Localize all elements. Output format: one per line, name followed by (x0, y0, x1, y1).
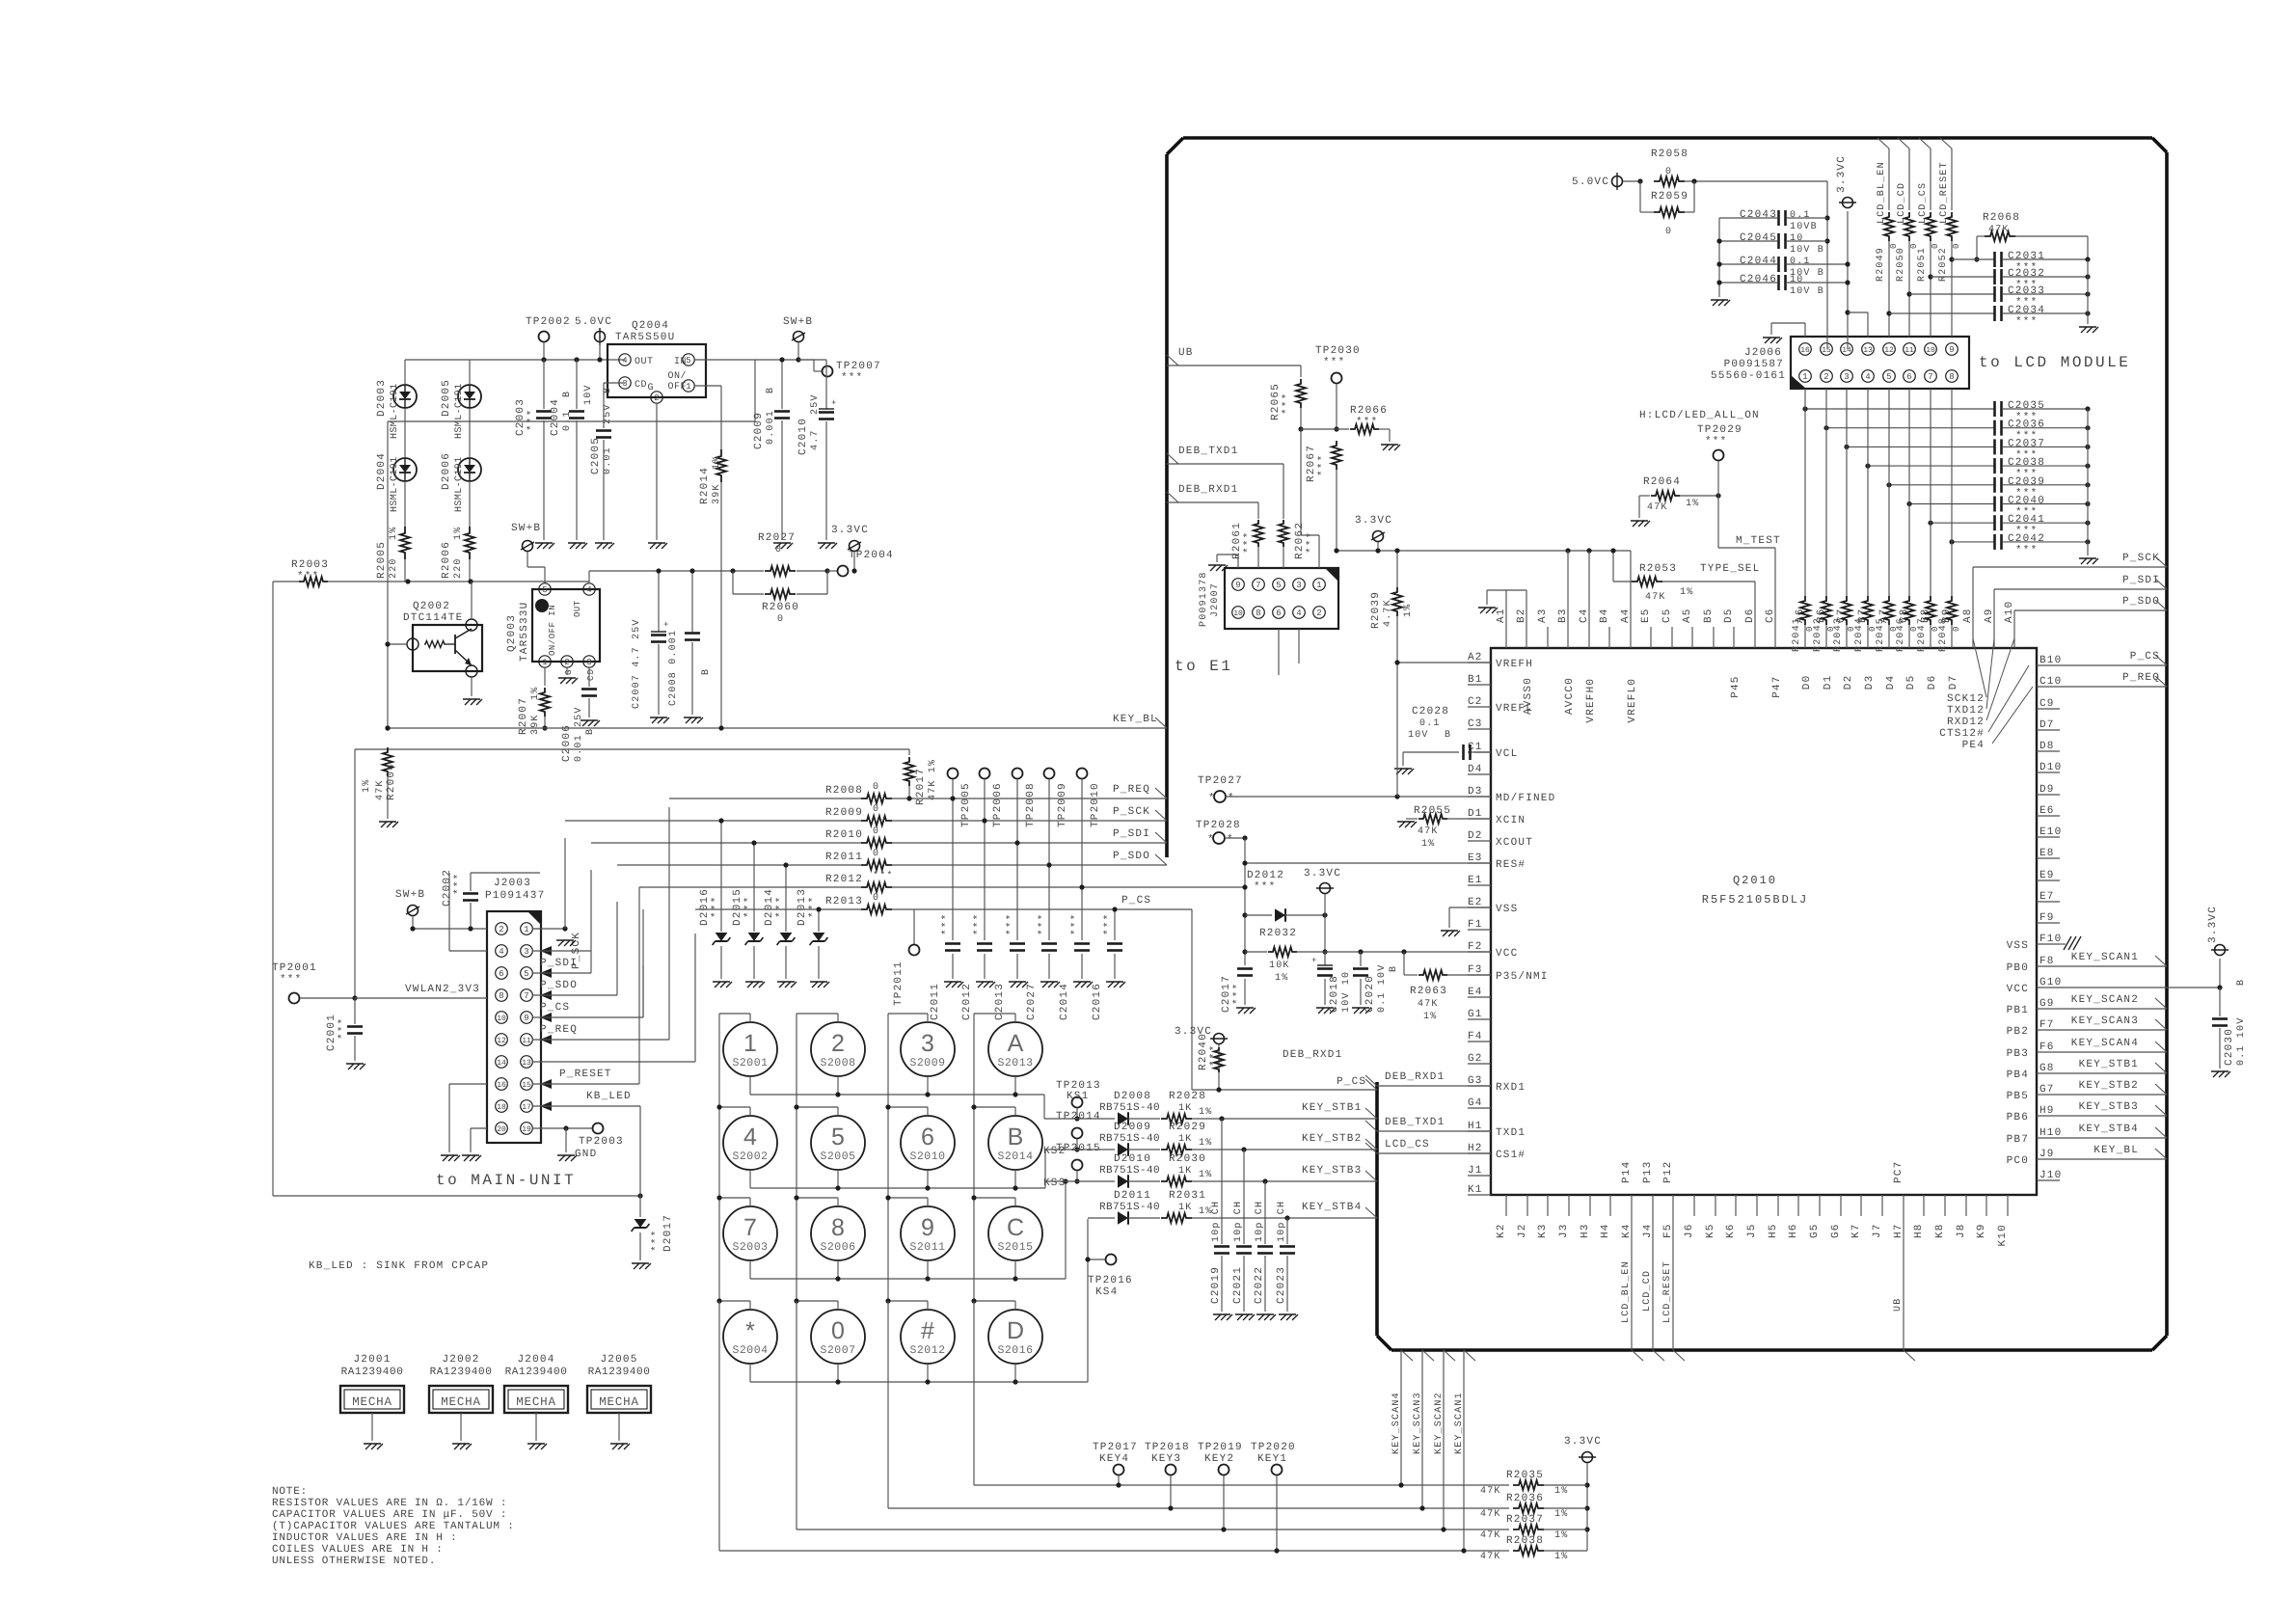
svg-text:10: 10 (497, 1015, 506, 1023)
capacitor C2041 *** (1931, 522, 1994, 524)
pin K9 bottom (1985, 1195, 1987, 1216)
svg-text:47K: 47K (1418, 826, 1439, 837)
ground Q2003 G (566, 667, 568, 675)
svg-text:47K: 47K (1480, 1509, 1501, 1520)
svg-text:10p CH: 10p CH (1211, 1201, 1222, 1242)
svg-text:R2031: R2031 (1169, 1190, 1206, 1202)
svg-text:5: 5 (686, 356, 690, 365)
svg-text:D2005: D2005 (441, 379, 452, 417)
pin J10 right (2037, 1179, 2060, 1181)
callout DEB_TXD1 to TXD1 (1365, 1121, 1377, 1131)
pin B2 top (1526, 627, 1527, 648)
wire keypad row 4 (750, 1381, 1088, 1383)
pin K7 bottom (1860, 1195, 1862, 1216)
svg-text:J1: J1 (1468, 1165, 1483, 1177)
wire pin9 riser to P_CS row (642, 909, 644, 1017)
wire J2007 pin6/pin4 down (1278, 629, 1280, 675)
svg-text:*: * (1208, 793, 1216, 804)
svg-text:D2006: D2006 (441, 452, 452, 490)
svg-text:C9: C9 (2039, 698, 2055, 710)
pin G3 left (1468, 1085, 1491, 1087)
junction dots LCD columns to bypass caps (1949, 257, 1954, 261)
pin H10 right (2037, 1137, 2060, 1139)
svg-text:0: 0 (1952, 625, 1961, 632)
pin A2 left (1468, 662, 1491, 663)
right callouts KEY_SCAN/KEY_STB/KEY_BL (2060, 965, 2167, 967)
svg-text:39K: 39K (712, 483, 722, 504)
svg-text:KEY_STB4: KEY_STB4 (1302, 1202, 1362, 1213)
svg-text:P14: P14 (1621, 1161, 1633, 1183)
svg-text:CD: CD (586, 668, 596, 681)
svg-text:A10: A10 (2004, 601, 2015, 623)
wire LCD_BL_EN from pin K4 (1631, 1216, 1633, 1350)
svg-text:1%: 1% (1554, 1486, 1568, 1497)
key switch S2002 (4) (723, 1116, 777, 1170)
svg-text:H:LCD/LED_ALL_ON: H:LCD/LED_ALL_ON (1639, 410, 1760, 421)
svg-text:MECHA: MECHA (599, 1395, 639, 1409)
pin H1 left (1468, 1130, 1491, 1132)
svg-text:10: 10 (1926, 346, 1935, 355)
svg-text:F2: F2 (1468, 941, 1483, 953)
ground slash at F10 VSS right (2060, 943, 2066, 945)
svg-text:MD/FINED: MD/FINED (1496, 793, 1555, 804)
svg-text:OFF: OFF (667, 382, 687, 392)
pin G7 right (2037, 1094, 2060, 1096)
svg-text:G9: G9 (2039, 998, 2055, 1010)
resistor R2052 0 (1947, 212, 1957, 241)
wire keypad column bus 3 (887, 1014, 889, 1301)
pin B4 top (1608, 627, 1610, 648)
svg-text:***: *** (775, 896, 787, 918)
svg-text:C2034: C2034 (2008, 305, 2045, 316)
svg-text:TP2006: TP2006 (992, 782, 1004, 827)
test point TP2013 KS1 (1072, 1097, 1083, 1108)
svg-text:***: *** (453, 873, 465, 895)
svg-text:0.01 25V: 0.01 25V (574, 706, 584, 762)
key switch S2012 (#) (901, 1310, 955, 1364)
svg-text:TP2027: TP2027 (1198, 775, 1243, 787)
svg-text:C2005: C2005 (590, 437, 602, 474)
svg-text:C10: C10 (2039, 676, 2062, 688)
svg-text:12: 12 (497, 1037, 506, 1045)
pin G6 bottom (1840, 1195, 1842, 1216)
resistor R2043 0 (1842, 596, 1851, 625)
svg-text:S2010: S2010 (909, 1150, 945, 1163)
svg-text:R2008: R2008 (825, 785, 863, 797)
key switch S2013 (A) (988, 1022, 1042, 1076)
pin B10 right (2037, 664, 2060, 666)
svg-text:DEB_RXD1: DEB_RXD1 (1178, 484, 1238, 496)
svg-text:J2007: J2007 (1210, 582, 1221, 617)
svg-text:TP2007: TP2007 (836, 361, 881, 372)
wire bottom bus row 2 (888, 1507, 1509, 1509)
svg-text:17: 17 (522, 1103, 531, 1112)
svg-text:LCD_CS: LCD_CS (1385, 1139, 1430, 1150)
svg-text:RB751S-40: RB751S-40 (1099, 1202, 1160, 1213)
svg-text:R2063: R2063 (1410, 986, 1447, 997)
svg-text:25V: 25V (810, 393, 821, 415)
pin E5 top (1650, 627, 1652, 648)
svg-text:RA1239400: RA1239400 (341, 1367, 404, 1378)
svg-text:1%: 1% (362, 779, 372, 793)
svg-text:PC0: PC0 (2007, 1155, 2029, 1167)
svg-text:R2011: R2011 (825, 852, 863, 863)
svg-text:C2018: C2018 (1329, 975, 1340, 1013)
svg-text:H10: H10 (2039, 1127, 2062, 1139)
svg-text:J9: J9 (2039, 1149, 2055, 1160)
svg-text:C2039: C2039 (2008, 476, 2045, 488)
resistor R2039 4.7K 1% (1392, 587, 1402, 616)
svg-text:11: 11 (522, 1037, 531, 1045)
svg-text:HSML-C191: HSML-C191 (454, 383, 465, 439)
wire left tall drop from R2003 to KB_LED note row (272, 582, 274, 1196)
svg-text:R2005: R2005 (376, 541, 388, 579)
resistor R2062 *** (1279, 520, 1288, 547)
svg-text:B5: B5 (1703, 608, 1715, 623)
pin A6 top (1804, 627, 1806, 648)
svg-text:B: B (766, 387, 776, 393)
pin G9 right (2037, 1008, 2060, 1010)
pin G4 left (1468, 1107, 1491, 1109)
svg-text:16: 16 (1800, 346, 1810, 355)
resistor R2017 47K 1% (908, 749, 910, 755)
pin E2 left (1468, 907, 1491, 908)
zener D2017 *** (639, 1106, 641, 1217)
resistor R2058 0 (1623, 180, 1640, 182)
wire P_SCK from pin1 (532, 928, 565, 930)
svg-text:TP2019: TP2019 (1198, 1442, 1243, 1453)
svg-text:LCD_RESET: LCD_RESET (1662, 1260, 1673, 1323)
pin E7 right (2037, 901, 2060, 903)
pin E3 left (1468, 862, 1491, 864)
svg-text:47K: 47K (1480, 1530, 1501, 1541)
svg-text:PE4: PE4 (1962, 740, 1985, 751)
svg-text:Q2010: Q2010 (1733, 874, 1777, 887)
svg-text:A2: A2 (1468, 652, 1483, 663)
pin D10 right (2037, 771, 2060, 773)
wire SW+B rail to caps (779, 357, 784, 362)
svg-text:TP2003: TP2003 (579, 1136, 624, 1148)
svg-text:C2031: C2031 (2008, 251, 2045, 262)
svg-text:6: 6 (499, 969, 503, 979)
svg-text:R2044: R2044 (1854, 617, 1865, 652)
svg-text:0.1: 0.1 (1790, 210, 1811, 221)
svg-text:4: 4 (586, 585, 591, 595)
pin B9 top (1951, 627, 1953, 648)
svg-text:R5F52105BDLJ: R5F52105BDLJ (1702, 893, 1808, 907)
svg-text:+: + (1311, 956, 1318, 965)
svg-text:2: 2 (654, 393, 659, 403)
svg-text:to E1: to E1 (1175, 658, 1233, 675)
key switch S2003 (7) (723, 1206, 777, 1260)
pin C6 top (1774, 627, 1776, 648)
svg-text:TYPE_SEL: TYPE_SEL (1700, 563, 1760, 575)
pin K3 bottom (1547, 1195, 1549, 1216)
svg-text:P_SDI: P_SDI (540, 958, 578, 969)
wire P_SDO from pin7 with arrow (540, 990, 552, 1000)
svg-text:6: 6 (1276, 609, 1281, 618)
capacitors C2019 C2021 C2022 C2023 10p CH (1221, 1119, 1223, 1244)
wire pin16 gnd (449, 1083, 487, 1085)
pin K2 bottom (1505, 1195, 1507, 1216)
svg-text:AVSS0: AVSS0 (1523, 677, 1534, 715)
wire LED column 1 (404, 360, 406, 385)
wire LCD_RESET from pin F5 (1672, 1216, 1674, 1350)
svg-text:***: *** (1282, 392, 1293, 415)
svg-text:R2043: R2043 (1833, 617, 1844, 652)
svg-text:B1: B1 (1468, 674, 1483, 686)
svg-text:KEY_SCAN1: KEY_SCAN1 (1454, 1392, 1465, 1454)
svg-text:P_SCK: P_SCK (2122, 553, 2160, 564)
svg-text:0: 0 (775, 545, 782, 555)
svg-text:C2023: C2023 (1276, 1266, 1287, 1304)
wire P_SDI from pin A9 (1993, 589, 1995, 627)
pin A4 top (1630, 627, 1632, 648)
svg-text:RXD1: RXD1 (1496, 1082, 1526, 1094)
svg-text:P12: P12 (1662, 1161, 1674, 1183)
svg-text:E1: E1 (1468, 875, 1483, 886)
svg-text:2: 2 (1316, 609, 1321, 618)
svg-text:C2013: C2013 (994, 983, 1006, 1020)
svg-text:KEY_STB2: KEY_STB2 (2079, 1080, 2139, 1092)
pin C10 right (2037, 686, 2060, 688)
svg-text:C2046: C2046 (1740, 274, 1777, 285)
test point TP2016 KS4 (1106, 1255, 1117, 1265)
svg-text:D2010: D2010 (1114, 1153, 1151, 1165)
LED D2003 HSML-C191 (393, 385, 417, 408)
svg-text:F5: F5 (1662, 1223, 1674, 1238)
ground for Q2004 G pin (656, 403, 658, 540)
svg-text:P_CS: P_CS (1337, 1076, 1366, 1088)
key switch S2008 (2) (811, 1022, 865, 1076)
svg-text:ON/: ON/ (667, 370, 687, 382)
pin D2 left (1468, 840, 1491, 842)
svg-text:5: 5 (831, 1123, 845, 1150)
svg-text:D2014: D2014 (764, 888, 775, 926)
svg-text:DTC114TE: DTC114TE (403, 612, 463, 624)
svg-text:UB: UB (1178, 347, 1194, 359)
svg-text:***: *** (941, 913, 953, 935)
svg-text:R2013: R2013 (825, 896, 863, 907)
svg-text:Q2003: Q2003 (506, 614, 518, 652)
svg-text:KEY_STB1: KEY_STB1 (2079, 1059, 2139, 1070)
svg-text:***: *** (1705, 436, 1727, 447)
capacitor C2036 *** (1826, 427, 1994, 429)
capacitor C2012 *** (977, 942, 992, 945)
svg-text:RB751S-40: RB751S-40 (1099, 1102, 1160, 1114)
svg-text:TP2015: TP2015 (1056, 1143, 1101, 1154)
key switch S2004 (*) (723, 1310, 777, 1364)
svg-text:TP2030: TP2030 (1315, 345, 1361, 357)
svg-text:RA1239400: RA1239400 (505, 1367, 568, 1378)
svg-text:TP2002: TP2002 (526, 316, 571, 328)
svg-text:P47: P47 (1771, 675, 1783, 697)
svg-text:D1: D1 (1823, 675, 1834, 690)
svg-text:15: 15 (1822, 346, 1831, 355)
svg-text:K9: K9 (1976, 1223, 1987, 1238)
svg-text:D10: D10 (2039, 762, 2062, 773)
svg-text:D2012: D2012 (1247, 870, 1284, 881)
svg-text:R2010: R2010 (825, 829, 863, 841)
wire J2003 pin2 to SW+B / C2002 (413, 928, 487, 930)
svg-text:47K: 47K (1418, 999, 1439, 1010)
pin D8 right (2037, 750, 2060, 752)
pin D9 right (2037, 794, 2060, 796)
svg-text:3.3VC: 3.3VC (831, 525, 869, 536)
svg-text:9: 9 (1949, 345, 1954, 355)
svg-text:K7: K7 (1850, 1223, 1862, 1238)
svg-text:R2027: R2027 (758, 532, 796, 544)
svg-text:UNLESS OTHERWISE NOTED.: UNLESS OTHERWISE NOTED. (272, 1556, 436, 1567)
svg-text:1: 1 (686, 382, 690, 392)
svg-text:H4: H4 (1600, 1223, 1611, 1238)
svg-text:S2009: S2009 (909, 1057, 945, 1069)
svg-text:TP2029: TP2029 (1697, 424, 1742, 436)
resistor R2014 39K 1% (694, 385, 721, 387)
svg-text:B4: B4 (1599, 608, 1610, 623)
svg-text:K10: K10 (1997, 1224, 2009, 1246)
svg-text:220: 220 (389, 557, 399, 579)
pin K5 bottom (1715, 1195, 1716, 1216)
callout LCD_CS to CS1# (1365, 1143, 1377, 1153)
svg-text:S2006: S2006 (820, 1241, 855, 1254)
svg-text:P0091378: P0091378 (1199, 571, 1209, 627)
svg-text:B: B (1008, 1123, 1024, 1150)
svg-text:P_REQ: P_REQ (540, 1024, 578, 1036)
svg-text:RA1239400: RA1239400 (430, 1367, 493, 1378)
svg-text:KB_LED: KB_LED (586, 1091, 632, 1102)
svg-text:***: *** (873, 870, 894, 881)
svg-text:J6: J6 (1684, 1223, 1695, 1238)
svg-text:1%: 1% (1686, 499, 1699, 509)
svg-text:2: 2 (1823, 372, 1828, 382)
svg-text:S2012: S2012 (909, 1344, 945, 1357)
svg-text:5: 5 (542, 585, 547, 595)
svg-text:47K: 47K (1645, 592, 1666, 603)
svg-text:TAR5S50U: TAR5S50U (615, 332, 675, 343)
svg-text:1: 1 (524, 925, 528, 934)
pin F10 right (2037, 943, 2060, 945)
capacitor C2035 *** (1805, 408, 1994, 410)
svg-text:S2013: S2013 (997, 1057, 1033, 1069)
svg-text:0: 0 (1665, 227, 1672, 237)
svg-text:D2004: D2004 (376, 452, 388, 490)
svg-text:P_SDO: P_SDO (1113, 851, 1150, 862)
svg-text:*: * (1207, 834, 1215, 846)
svg-text:C2010: C2010 (797, 418, 809, 455)
svg-text:D2016: D2016 (699, 888, 711, 926)
svg-text:10: 10 (1790, 275, 1803, 285)
svg-text:VWLAN2_3V3: VWLAN2_3V3 (405, 984, 480, 995)
svg-text:1%: 1% (453, 527, 464, 540)
pin A3 top (1547, 627, 1549, 648)
pin J3 bottom (1568, 1195, 1570, 1216)
svg-text:GND: GND (575, 1149, 597, 1160)
svg-text:C2003: C2003 (515, 398, 527, 436)
svg-text:TP2016: TP2016 (1088, 1275, 1133, 1286)
pin K10 bottom (2007, 1195, 2009, 1216)
svg-text:KEY_BL: KEY_BL (2093, 1145, 2139, 1156)
pin E6 right (2037, 815, 2060, 817)
svg-text:P_RESET: P_RESET (559, 1069, 612, 1080)
svg-text:1%: 1% (1421, 839, 1435, 850)
svg-text:B: B (585, 728, 596, 735)
svg-text:J2001: J2001 (353, 1354, 391, 1366)
svg-text:R2045: R2045 (1876, 617, 1886, 652)
svg-text:1%: 1% (1199, 1170, 1212, 1180)
svg-text:HSML-C191: HSML-C191 (390, 383, 400, 439)
wire KEY_BL net (388, 727, 1167, 729)
wire LCD_CD from pin J4 (1652, 1216, 1654, 1350)
wire IN pin to SW+B rail (694, 359, 798, 361)
svg-text:F1: F1 (1468, 919, 1483, 931)
ground at J2007 pin9 (1237, 555, 1239, 568)
svg-text:D6: D6 (1744, 608, 1756, 623)
svg-text:J2004: J2004 (517, 1354, 554, 1366)
svg-text:A5: A5 (1682, 608, 1693, 623)
border frame of LCD/keyboard sub-module block (1183, 136, 2152, 140)
pin E10 right (2037, 836, 2060, 838)
svg-text:KEY_SCAN3: KEY_SCAN3 (2071, 1015, 2139, 1027)
svg-text:F7: F7 (2039, 1019, 2055, 1031)
capacitor C2027 *** (1041, 942, 1057, 945)
pin F3 left (1468, 974, 1491, 976)
svg-text:OUT: OUT (573, 600, 582, 617)
test point TP2011 (913, 909, 915, 944)
test point TP2010 (1077, 769, 1088, 779)
svg-text:PB6: PB6 (2007, 1112, 2029, 1123)
resistor R2006 220 1% (465, 527, 474, 559)
wire pin13 net (532, 1061, 695, 1063)
svg-text:5.0VC: 5.0VC (575, 316, 612, 328)
pin D7 right (2037, 729, 2060, 731)
svg-text:PB1: PB1 (2007, 1005, 2029, 1016)
svg-text:D4: D4 (1885, 675, 1897, 690)
resistor R2064 47K 1% and M_TEST (1631, 520, 1648, 522)
svg-text:10V B: 10V B (1790, 245, 1824, 256)
resistor R2063 47K 1% (1401, 949, 1406, 954)
svg-text:10: 10 (1790, 233, 1803, 244)
resistor R2047 0 (1926, 596, 1935, 625)
svg-text:0: 0 (831, 1317, 845, 1344)
capacitor C2008 0.001 B (691, 571, 693, 632)
svg-text:LCD_BL_EN: LCD_BL_EN (1877, 161, 1887, 224)
svg-text:J2002: J2002 (442, 1354, 479, 1366)
svg-text:***: *** (280, 974, 302, 986)
svg-text:to MAIN-UNIT: to MAIN-UNIT (436, 1172, 576, 1189)
capacitors C2031-C2034 *** (1952, 258, 1994, 260)
pin G8 right (2037, 1072, 2060, 1074)
svg-text:NOTE:: NOTE: (272, 1486, 308, 1498)
svg-text:MECHA: MECHA (352, 1395, 392, 1409)
ground rail for AVSS0 (1478, 607, 1496, 609)
svg-text:13: 13 (522, 1059, 531, 1068)
svg-text:KEY_SCAN1: KEY_SCAN1 (2071, 952, 2139, 963)
svg-text:4.7K: 4.7K (1383, 599, 1393, 627)
svg-text:KEY_STB3: KEY_STB3 (2079, 1101, 2139, 1113)
svg-text:D2013: D2013 (797, 888, 808, 926)
svg-text:1%: 1% (530, 687, 541, 700)
wire VSS E2 ground (1449, 907, 1491, 908)
svg-text:K2: K2 (1496, 1223, 1507, 1238)
svg-text:S2016: S2016 (997, 1344, 1033, 1357)
svg-text:RB751S-40: RB751S-40 (1099, 1133, 1160, 1145)
svg-text:3: 3 (524, 947, 528, 957)
svg-text:5: 5 (524, 969, 528, 979)
svg-text:C2016: C2016 (1092, 983, 1103, 1020)
svg-text:R2030: R2030 (1169, 1153, 1206, 1165)
pin C7 top (1846, 627, 1848, 648)
